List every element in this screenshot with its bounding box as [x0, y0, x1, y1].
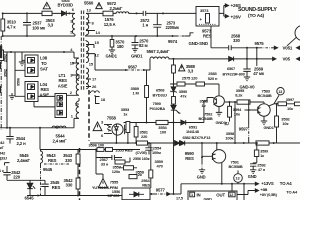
svg-text:220: 220: [141, 134, 148, 139]
svg-text:6567: 6567: [227, 66, 235, 71]
opto pin 6 lead: [104, 133, 112, 135]
svg-text:(TO A4): (TO A4): [248, 13, 265, 19]
svg-text:MP250: MP250: [108, 193, 121, 198]
svg-text:3599: 3599: [260, 149, 268, 153]
transformer primary winding lower-left section A: [74, 58, 79, 80]
svg-text:1к: 1к: [202, 103, 206, 108]
svg-text:542: 542: [0, 151, 6, 156]
diode 6567 BYF229F-800: [229, 57, 234, 62]
capacitor 2570 with ground: [132, 36, 139, 52]
wire y70 with jumper 9567: [95, 59, 150, 70]
svg-text:13: 13: [236, 177, 240, 181]
connector L04 RES ASIE: [25, 82, 38, 102]
svg-text:IN: IN: [197, 192, 201, 197]
regulator box IN OUT: [188, 191, 237, 201]
off-page marker V051: [297, 46, 301, 49]
svg-text:P0102BA: P0102BA: [150, 107, 166, 111]
thyristor 7590 P0102BA: [171, 104, 181, 122]
inductor 5567: [150, 57, 188, 59]
capacitor 2537: [23, 13, 31, 36]
svg-text:6582 BZX79-F13: 6582 BZX79-F13: [183, 135, 212, 140]
thyristor 6545: [27, 180, 35, 195]
svg-text:47 мк: 47 мк: [253, 71, 265, 76]
svg-text:2,2 н: 2,2 н: [17, 141, 27, 146]
transformer primary winding lower-left section B: [66, 75, 80, 95]
node junction top-left: [2, 12, 4, 14]
svg-text:470: 470: [157, 164, 164, 169]
svg-text:GND: GND: [197, 174, 206, 179]
svg-text:12,5 A: 12,5 A: [104, 22, 116, 27]
jumper 9597 dash-dot: [248, 100, 250, 143]
svg-text:33 н: 33 н: [101, 161, 109, 166]
transformer primary winding lower-left section C: [72, 63, 79, 128]
wire diagonal to transistor: [287, 37, 297, 46]
svg-text:9574: 9574: [168, 39, 178, 44]
node 13 circled bottom: [237, 171, 239, 184]
resistor 3588: [173, 59, 175, 65]
wire collector rail y102: [225, 102, 264, 104]
jumper 9590 dash-dot with ground: [201, 143, 203, 162]
svg-text:47 н: 47 н: [258, 167, 266, 172]
svg-text:3,3: 3,3: [48, 22, 54, 27]
svg-text:1к: 1к: [123, 112, 127, 117]
svg-text:GND: GND: [248, 174, 257, 179]
svg-text:1 н: 1 н: [142, 22, 148, 27]
svg-text:Д1: Д1: [225, 121, 229, 125]
wire from winding 13 to fuse: [86, 12, 103, 14]
wire 13VS rail: [181, 184, 255, 194]
svg-text:BYD33D: BYD33D: [58, 3, 73, 8]
resistor 3542: [76, 178, 80, 189]
svg-text:6545: 6545: [25, 196, 35, 200]
connector LT1: [55, 94, 67, 118]
rail B with series resistors 2555: [40, 149, 140, 151]
svg-text:L04: L04: [40, 82, 48, 87]
svg-text:4,7 к: 4,7 к: [7, 25, 17, 30]
svg-text:10к: 10к: [282, 121, 288, 126]
svg-text:10к: 10к: [234, 112, 240, 117]
svg-text:120к: 120к: [112, 169, 120, 174]
resistor 3570: [111, 36, 113, 40]
chassis dash-dot border left: [0, 36, 2, 130]
svg-text:GND1: GND1: [106, 54, 118, 59]
svg-text:5560: 5560: [84, 1, 94, 6]
resistor 3590: [172, 97, 176, 105]
node 13 circled top: [277, 88, 284, 95]
wire drop zener column: [173, 143, 175, 194]
svg-text:2556 160к: 2556 160к: [133, 157, 150, 161]
svg-text:GND1: GND1: [264, 125, 275, 130]
svg-text:82 м: 82 м: [139, 43, 148, 48]
diode 6503 BYD33D: [62, 11, 67, 16]
svg-text:12: 12: [229, 193, 233, 197]
wire to cap 2572: [131, 12, 143, 14]
jumper 9545 dash-dot vertical: [40, 166, 42, 196]
svg-text:100м: 100м: [152, 150, 161, 155]
wire main low rail y128: [0, 127, 74, 129]
transformer secondary winding lower right: [86, 68, 91, 89]
svg-text:GND-SND: GND-SND: [189, 41, 208, 46]
jumper 9543 dash-dot: [44, 163, 70, 165]
svg-text:220: 220: [13, 175, 20, 180]
warning triangle opto: [93, 122, 102, 131]
svg-text:SOUND-SUPPLY: SOUND-SUPPLY: [238, 7, 277, 13]
inductor 5545 vertical: [41, 150, 43, 166]
svg-text:+13VS: +13VS: [261, 181, 274, 186]
inductor 5544: [52, 126, 66, 128]
svg-text:V051: V051: [283, 46, 293, 51]
svg-text:BC548B: BC548B: [199, 116, 213, 121]
arrow +26S: [225, 4, 228, 7]
svg-text:TO A4: TO A4: [286, 190, 298, 195]
capacitor 2544: [6, 128, 13, 144]
svg-text:1: 1: [191, 193, 193, 197]
svg-text:520 н: 520 н: [208, 76, 218, 81]
svg-text:SAT: SAT: [40, 67, 48, 72]
wire lower rail top-left: [3, 35, 75, 37]
svg-text:+8V (0,5В): +8V (0,5В): [260, 193, 278, 197]
left edge bracket symbol: [5, 163, 10, 166]
wire vertical x235: [234, 102, 236, 143]
svg-text:3573: 3573: [200, 8, 209, 13]
wire bottom rail left: [27, 195, 122, 197]
svg-text:+8В: +8В: [260, 187, 267, 192]
wire thyristor row: [7, 179, 45, 181]
svg-text:330: 330: [66, 183, 73, 188]
connector box 9573: [196, 7, 219, 27]
wire verticals below 13VS rail: [232, 184, 244, 200]
transformer bottom winding pin 18: [91, 91, 100, 104]
shunt reg 7555 triangle: [98, 178, 107, 187]
capacitor 2567 series: [96, 155, 122, 160]
opto pin 3 lead: [104, 124, 112, 126]
resistor on rail A: [137, 141, 148, 145]
transistor 7570 top-right clipped: [295, 26, 310, 41]
svg-text:RES: RES: [59, 78, 68, 83]
wire transistor top feed: [218, 84, 220, 96]
svg-text:BC548B: BC548B: [258, 93, 272, 98]
wire into LT1 pin 2: [38, 95, 55, 97]
capacitor 2568 series: [229, 45, 260, 50]
resistor 3510: [2, 13, 4, 36]
svg-text:L08: L08: [40, 56, 48, 61]
optocoupler 7558: [112, 124, 123, 135]
svg-text:1к: 1к: [260, 154, 264, 158]
svg-text:BC558B: BC558B: [229, 164, 243, 169]
transformer T5560 primary winding top: [72, 13, 75, 36]
svg-text:100 мк: 100 мк: [32, 26, 46, 31]
svg-text:17,5: 17,5: [176, 197, 183, 200]
svg-text:2,4мкГ: 2,4мкГ: [17, 158, 31, 163]
capacitor 2575 row: [170, 84, 219, 87]
resistor 2k: [129, 175, 137, 179]
rail A feedback bottom: [90, 142, 300, 144]
wire diagonal to node 13: [274, 95, 279, 104]
capacitor 2573: [153, 13, 162, 36]
svg-text:9567: 9567: [128, 65, 138, 70]
svg-text:7558: 7558: [107, 116, 117, 121]
resistor 3543: [77, 150, 79, 179]
inductor 5572: [113, 12, 131, 14]
ground GND1 left: [109, 47, 115, 54]
svg-text:2к: 2к: [138, 172, 142, 177]
resistor 3554: [156, 120, 168, 124]
jumper 9577 wire: [150, 193, 155, 195]
svg-text:5567 2,4мкГ: 5567 2,4мкГ: [147, 49, 171, 54]
svg-text:2555 RES: 2555 RES: [116, 148, 134, 153]
svg-text:RES: RES: [41, 87, 50, 92]
resistor 3553: [127, 122, 129, 144]
resistor 3599: [256, 143, 258, 163]
svg-text:2575 120: 2575 120: [182, 76, 198, 81]
svg-text:TO A4: TO A4: [280, 181, 292, 186]
wire mid rail GND-SND: [85, 35, 176, 37]
resistor 3589: [146, 70, 148, 123]
svg-text:2,2мкГ: 2,2мкГ: [110, 6, 124, 11]
svg-text:7590: 7590: [153, 101, 162, 106]
resistor 3557: [115, 160, 125, 164]
svg-text:(CV05): (CV05): [136, 151, 148, 155]
ground GND1 under 7592: [216, 112, 222, 116]
svg-text:8,2к: 8,2к: [235, 93, 242, 98]
ground GND1 under 7593: [261, 121, 267, 125]
svg-text:ASIE: ASIE: [58, 84, 68, 89]
wire left drop to TL431: [96, 158, 103, 179]
svg-text:100: 100: [160, 130, 167, 135]
capacitor 2545: [41, 180, 48, 195]
svg-text:2,4 мкГ: 2,4 мкГ: [53, 139, 68, 144]
capacitor 2542: [3, 166, 10, 180]
wire drop from rail B: [95, 150, 97, 158]
wire to resistor 3597: [268, 104, 300, 106]
svg-text:ASIE: ASIE: [40, 93, 50, 98]
svg-text:3596 100: 3596 100: [89, 142, 105, 147]
arrow +8V: [255, 189, 258, 192]
svg-text:2200мк: 2200мк: [166, 25, 180, 30]
resistor 3558: [124, 166, 134, 170]
wire V05 line: [188, 58, 273, 60]
wire vertical left b: [15, 52, 25, 96]
svg-text:V05: V05: [283, 57, 291, 62]
warning triangle 3588: [179, 65, 185, 71]
capacitor 2572 series: [143, 11, 196, 16]
svg-text:9597: 9597: [239, 126, 249, 131]
clipped edge component block: [0, 46, 2, 59]
svg-text:BYD33J: BYD33J: [153, 93, 167, 98]
svg-text:7555: 7555: [110, 180, 119, 185]
wire feedback rail y122.5: [124, 101, 204, 123]
off-page marker V05: [297, 57, 301, 60]
resistor series on rail A right: [256, 141, 269, 145]
svg-text:9575: 9575: [255, 41, 265, 46]
warning triangle (hot): [43, 2, 50, 8]
wire regulator out: [237, 191, 255, 195]
capacitor 2569 with ground GND-V0: [243, 59, 250, 81]
transistor 7592 BC548B: [214, 96, 225, 107]
fuse 1576: [103, 11, 113, 16]
svg-text:330: 330: [233, 38, 240, 43]
wire vertical left a: [6, 52, 8, 128]
svg-text:180: 180: [117, 44, 124, 49]
svg-text:1N4148: 1N4148: [186, 129, 200, 134]
svg-text:3,3: 3,3: [188, 68, 194, 73]
svg-text:9545: 9545: [43, 167, 53, 172]
wire top mains rail: [2, 12, 75, 14]
transformer secondary winding mid right: [86, 40, 95, 70]
isolation barrier dashed: [80, 90, 90, 200]
svg-text:RES: RES: [185, 156, 194, 161]
svg-text:330: 330: [65, 158, 72, 163]
resistor hi 3593: [237, 100, 250, 104]
transistor 7593: [258, 104, 270, 116]
svg-text:LT1: LT1: [59, 73, 67, 78]
svg-text:9506: 9506: [17, 78, 21, 86]
transformer core: [81, 11, 83, 92]
wire vertical left c with ground: [19, 52, 25, 66]
arrow V051: [272, 47, 275, 49]
svg-text:Д33J: Д33J: [0, 156, 7, 160]
svg-text:TO: TO: [41, 61, 47, 66]
wire mains lower second rail: [2, 52, 74, 58]
svg-text:19: 19: [75, 103, 79, 107]
svg-text:3597: 3597: [286, 97, 295, 102]
resistor left edge clipped: [0, 50, 4, 61]
svg-text:47к: 47к: [180, 94, 186, 99]
resistor 3559: [150, 143, 152, 188]
svg-text:3502: 3502: [4, 69, 8, 77]
arrow on 9577 wire: [167, 192, 170, 195]
svg-text:RES: RES: [52, 185, 61, 190]
svg-text:GND1: GND1: [131, 54, 143, 59]
diode 6591 1N4148: [181, 120, 186, 125]
svg-text:OUT: OUT: [216, 192, 225, 197]
connector 2564 box with diode: [122, 188, 150, 200]
capacitor 2592 with ground: [250, 163, 257, 174]
svg-text:9577: 9577: [156, 187, 166, 192]
wire opto bottom to rail: [115, 135, 117, 143]
resistor 3594: [229, 102, 231, 122]
warning triangle mid: [96, 3, 102, 9]
svg-text:2502: 2502: [4, 54, 8, 62]
svg-text:1 к: 1 к: [0, 169, 4, 173]
svg-text:GND: GND: [204, 196, 213, 200]
wire from box down to V051 line: [211, 26, 228, 48]
svg-text:RES: RES: [48, 158, 57, 163]
vertical tie wire: [247, 48, 257, 66]
resistor 3503: [42, 11, 52, 15]
svg-text:13: 13: [278, 90, 282, 94]
arrow +13VS: [255, 182, 258, 185]
jumper 9574 dash-dot: [176, 35, 185, 37]
resistor 3592: [276, 104, 278, 143]
transformer secondary winding upper right: [86, 13, 95, 36]
capacitor 2554: [145, 143, 152, 155]
zener pair 6582 BZX79-F13: [173, 123, 175, 144]
wire drop to rail B: [39, 128, 41, 150]
arrow +26V: [225, 15, 228, 18]
wire to sound supply arrows: [219, 6, 225, 17]
svg-text:1 М: 1 М: [133, 91, 140, 96]
arrow V05: [273, 57, 276, 60]
svg-text:10к: 10к: [287, 106, 293, 111]
connector L08 TO SAT: [25, 55, 38, 77]
svg-text:RES: RES: [142, 183, 150, 188]
node junction cap top: [26, 12, 28, 14]
svg-text:+26V: +26V: [231, 15, 242, 20]
svg-text:BYF229F-800: BYF229F-800: [223, 72, 245, 76]
svg-text:100к: 100к: [225, 136, 233, 141]
wire into LT1 pin 1: [34, 101, 55, 107]
jumper 9575 dash-dot: [260, 47, 272, 49]
resistor 3581: [135, 123, 137, 144]
zener diode 6508 BYD33J: [171, 87, 177, 93]
transistor 7591 BC558B: [212, 150, 225, 163]
svg-text:RES: RES: [203, 33, 212, 38]
ground lower left: [9, 93, 15, 99]
